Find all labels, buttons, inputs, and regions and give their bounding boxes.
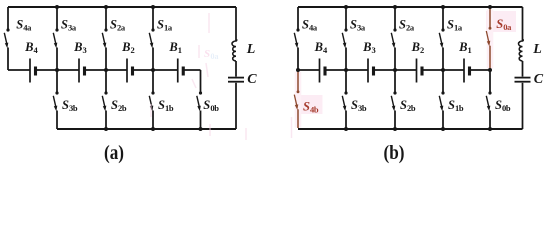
svg-text:(a): (a) bbox=[104, 142, 124, 165]
svg-text:S2b: S2b bbox=[111, 98, 127, 113]
svg-text:S2b: S2b bbox=[400, 98, 416, 113]
svg-text:S4a: S4a bbox=[302, 17, 318, 32]
svg-text:B1: B1 bbox=[168, 40, 182, 55]
svg-text:S3b: S3b bbox=[62, 98, 78, 113]
svg-text:B3: B3 bbox=[73, 40, 87, 55]
svg-text:S0b: S0b bbox=[495, 98, 511, 113]
svg-text:B1: B1 bbox=[458, 40, 472, 55]
svg-text:S2a: S2a bbox=[110, 17, 126, 32]
svg-text:S: S bbox=[204, 48, 210, 60]
svg-text:S1a: S1a bbox=[157, 17, 173, 32]
svg-text:S3b: S3b bbox=[351, 98, 367, 113]
svg-text:L: L bbox=[246, 42, 256, 57]
svg-text:B2: B2 bbox=[411, 40, 425, 55]
svg-text:B4: B4 bbox=[314, 40, 328, 55]
svg-text:S3a: S3a bbox=[61, 17, 77, 32]
svg-text:C: C bbox=[247, 72, 257, 87]
svg-text:S1a: S1a bbox=[447, 17, 463, 32]
svg-text:B2: B2 bbox=[121, 40, 135, 55]
svg-text:S1b: S1b bbox=[158, 98, 174, 113]
svg-text:B4: B4 bbox=[24, 40, 38, 55]
svg-text:0a: 0a bbox=[211, 52, 219, 61]
svg-text:C: C bbox=[534, 72, 544, 87]
svg-text:S0b: S0b bbox=[203, 98, 219, 113]
svg-text:L: L bbox=[532, 42, 542, 57]
svg-text:S2a: S2a bbox=[399, 17, 415, 32]
svg-text:B3: B3 bbox=[362, 40, 376, 55]
svg-text:(b): (b) bbox=[384, 142, 405, 165]
svg-text:S4a: S4a bbox=[16, 17, 32, 32]
svg-text:S1b: S1b bbox=[448, 98, 464, 113]
svg-text:S3a: S3a bbox=[350, 17, 366, 32]
